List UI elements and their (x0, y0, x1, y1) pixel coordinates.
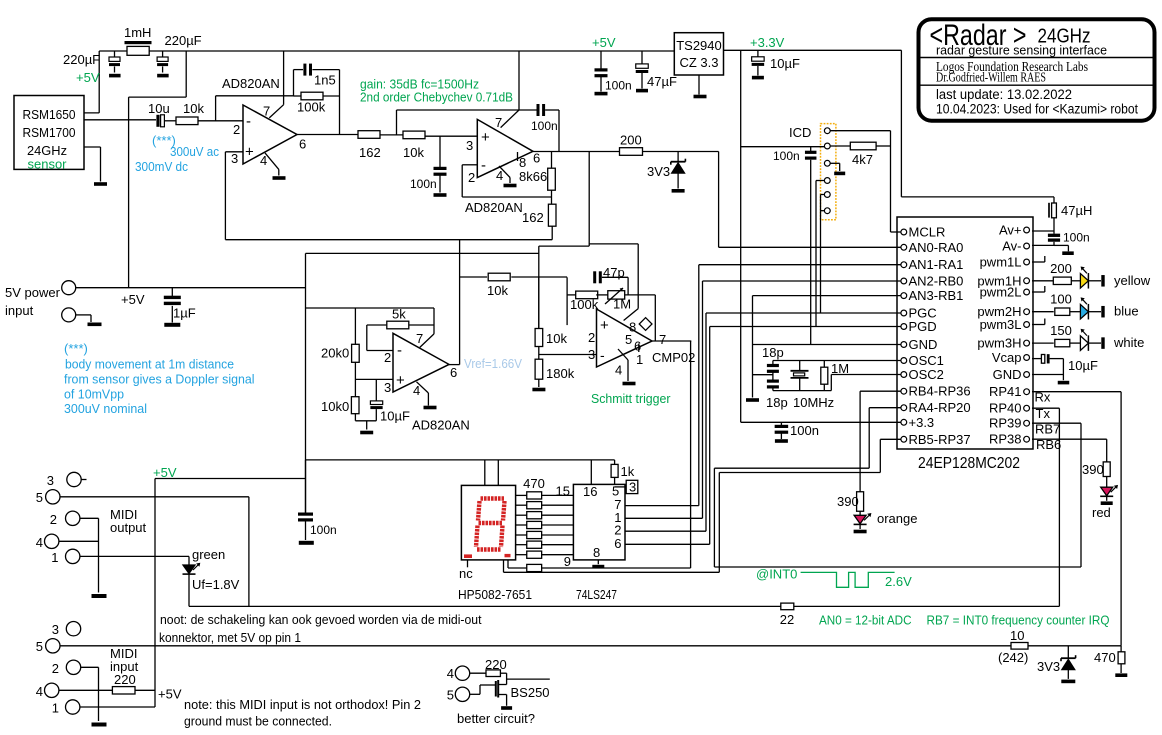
svg-text:BS250: BS250 (511, 685, 550, 700)
svg-text:Av+: Av+ (999, 223, 1022, 238)
svg-text:7: 7 (495, 115, 502, 130)
svg-text:1k: 1k (621, 464, 635, 479)
svg-text:RP41: RP41 (989, 384, 1022, 399)
svg-text:CMP02: CMP02 (652, 350, 695, 365)
svg-text:RP38: RP38 (989, 432, 1022, 447)
svg-text:200: 200 (620, 133, 642, 148)
svg-text:100: 100 (1050, 292, 1072, 307)
svg-text:3: 3 (384, 380, 391, 395)
svg-text:100n: 100n (531, 119, 558, 133)
svg-text:3: 3 (52, 622, 59, 637)
svg-text:yellow: yellow (1114, 273, 1151, 288)
svg-text:from sensor gives a Doppler si: from sensor gives a Doppler signal (64, 372, 255, 387)
svg-text:body movement at 1m distance: body movement at 1m distance (65, 357, 234, 372)
svg-text:(***): (***) (64, 341, 88, 356)
svg-text:RB4-RP36: RB4-RP36 (909, 384, 971, 399)
svg-text:3V3: 3V3 (1037, 659, 1060, 674)
svg-text:+: + (481, 129, 490, 146)
svg-text:+3.3: +3.3 (909, 415, 935, 430)
svg-text:100n: 100n (410, 177, 437, 191)
svg-text:OSC1: OSC1 (909, 353, 944, 368)
svg-text:6: 6 (299, 137, 306, 152)
svg-text:7: 7 (416, 331, 423, 346)
svg-text:RB7: RB7 (1035, 422, 1060, 437)
svg-text:+: + (245, 144, 254, 161)
svg-text:RB5-RP37: RB5-RP37 (909, 432, 971, 447)
svg-text:4: 4 (36, 684, 43, 699)
svg-text:1µF: 1µF (173, 306, 196, 321)
svg-text:pwm2L: pwm2L (980, 285, 1022, 300)
svg-text:3: 3 (231, 151, 238, 166)
svg-text:@INT0: @INT0 (756, 567, 797, 582)
svg-text:AD820AN: AD820AN (465, 200, 523, 215)
svg-text:output: output (110, 520, 147, 535)
svg-text:+: + (600, 317, 609, 334)
svg-text:10MHz: 10MHz (793, 395, 834, 410)
svg-text:nc: nc (459, 566, 473, 581)
svg-text:2: 2 (588, 330, 595, 345)
svg-text:6: 6 (450, 365, 457, 380)
svg-text:7: 7 (263, 104, 270, 119)
svg-text:162: 162 (359, 145, 381, 160)
svg-text:18p: 18p (762, 345, 784, 360)
svg-text:10µF: 10µF (380, 409, 410, 424)
svg-text:6: 6 (614, 536, 621, 551)
svg-text:+: + (396, 372, 405, 389)
svg-text:10.04.2023: Used for <Kazumi>: 10.04.2023: Used for <Kazumi> robot (936, 102, 1138, 117)
svg-text:47µH: 47µH (1061, 203, 1092, 218)
svg-text:Av-: Av- (1002, 239, 1021, 254)
svg-text:200: 200 (1050, 261, 1072, 276)
svg-text:+5V: +5V (592, 35, 616, 50)
svg-text:RB7 = INT0 frequency counter I: RB7 = INT0 frequency counter IRQ (927, 614, 1110, 628)
svg-text:100n: 100n (310, 523, 337, 537)
svg-text:100n: 100n (605, 79, 632, 93)
svg-text:+3.3V: +3.3V (750, 35, 785, 50)
svg-text:Vref=1.66V: Vref=1.66V (464, 356, 522, 371)
svg-text:pwm3L: pwm3L (980, 317, 1022, 332)
svg-text:RSM1650: RSM1650 (23, 107, 76, 122)
svg-text:2nd order Chebychev 0.71dB: 2nd order Chebychev 0.71dB (360, 90, 513, 105)
svg-text:Dr.Godfried-Willem RAES: Dr.Godfried-Willem RAES (936, 71, 1046, 86)
svg-text:4: 4 (615, 363, 622, 378)
svg-text:4: 4 (36, 535, 43, 550)
svg-text:2: 2 (233, 122, 240, 137)
svg-text:10k: 10k (487, 283, 508, 298)
svg-text:white: white (1113, 335, 1144, 350)
svg-text:RB6: RB6 (1036, 437, 1061, 452)
svg-text:CZ 3.3: CZ 3.3 (679, 55, 718, 70)
svg-text:TS2940: TS2940 (676, 38, 722, 53)
svg-text:100k: 100k (570, 297, 599, 312)
svg-text:10k: 10k (403, 145, 424, 160)
svg-text:470: 470 (1094, 650, 1116, 665)
svg-text:1: 1 (52, 701, 59, 716)
svg-text:Uf=1.8V: Uf=1.8V (192, 577, 240, 592)
svg-text:15: 15 (556, 484, 570, 499)
svg-text:8: 8 (519, 155, 526, 170)
svg-text:HP5082-7651: HP5082-7651 (458, 587, 532, 602)
svg-text:Schmitt trigger: Schmitt trigger (591, 391, 671, 406)
svg-text:220: 220 (485, 657, 507, 672)
svg-text:220µF: 220µF (63, 52, 100, 67)
svg-text:47p: 47p (603, 265, 625, 280)
svg-text:RP39: RP39 (989, 416, 1022, 431)
svg-text:radar gesture sensing interfac: radar gesture sensing interface (936, 43, 1107, 58)
svg-text:Rx: Rx (1035, 390, 1051, 405)
svg-text:1mH: 1mH (124, 25, 151, 40)
svg-text:+5V: +5V (153, 465, 177, 480)
svg-text:22: 22 (780, 612, 794, 627)
svg-text:3V3: 3V3 (647, 164, 670, 179)
svg-text:5: 5 (36, 490, 43, 505)
svg-text:Tx: Tx (1036, 406, 1051, 421)
svg-text:2: 2 (468, 170, 475, 185)
svg-text:1: 1 (51, 550, 58, 565)
svg-text:8k66: 8k66 (519, 169, 547, 184)
svg-text:1: 1 (636, 352, 643, 367)
svg-text:AN2-RB0: AN2-RB0 (909, 274, 964, 289)
svg-text:100k: 100k (297, 100, 326, 115)
svg-text:3: 3 (47, 473, 54, 488)
svg-text:OSC2: OSC2 (909, 367, 944, 382)
svg-text:10µF: 10µF (770, 56, 800, 71)
svg-text:better circuit?: better circuit? (457, 711, 535, 726)
svg-text:MCLR: MCLR (909, 225, 946, 240)
svg-text:RA4-RP20: RA4-RP20 (909, 400, 971, 415)
svg-text:AD820AN: AD820AN (222, 76, 280, 91)
svg-text:9: 9 (564, 554, 571, 569)
svg-text:-: - (481, 157, 486, 174)
svg-text:note: this MIDI input is not o: note: this MIDI input is not orthodox! P… (184, 697, 421, 712)
svg-text:100n: 100n (773, 149, 800, 163)
svg-text:300mV dc: 300mV dc (135, 159, 188, 174)
svg-text:180k: 180k (546, 366, 575, 381)
svg-text:47µF: 47µF (647, 74, 677, 89)
svg-text:390: 390 (837, 494, 859, 509)
svg-text:RP40: RP40 (989, 401, 1022, 416)
svg-text:+5V: +5V (158, 687, 182, 702)
svg-text:input: input (5, 303, 34, 318)
svg-text:ICD: ICD (789, 125, 811, 140)
svg-text:blue: blue (1114, 304, 1139, 319)
svg-text:orange: orange (877, 511, 917, 526)
svg-text:-: - (600, 347, 605, 363)
svg-text:-: - (397, 342, 402, 359)
svg-text:300uV ac: 300uV ac (170, 144, 219, 159)
svg-text:24EP128MC202: 24EP128MC202 (918, 455, 1020, 472)
svg-text:2: 2 (50, 512, 57, 527)
svg-text:1M: 1M (831, 361, 849, 376)
svg-text:Vcap: Vcap (992, 350, 1022, 365)
svg-text:last update: 13.02.2022: last update: 13.02.2022 (936, 87, 1072, 102)
svg-text:470: 470 (523, 476, 545, 491)
svg-text:18p: 18p (766, 395, 788, 410)
svg-text:6: 6 (533, 151, 540, 166)
svg-text:2: 2 (52, 661, 59, 676)
svg-text:150: 150 (1050, 323, 1072, 338)
svg-text:1M: 1M (613, 297, 631, 312)
svg-text:7: 7 (659, 332, 666, 347)
svg-text:+5V: +5V (121, 292, 145, 307)
svg-text:5k: 5k (392, 307, 406, 322)
svg-text:AN1-RA1: AN1-RA1 (909, 257, 964, 272)
svg-text:74LS247: 74LS247 (576, 587, 617, 602)
svg-text:PGD: PGD (909, 319, 937, 334)
svg-text:red: red (1092, 505, 1111, 520)
svg-text:2: 2 (384, 350, 391, 365)
svg-text:10k0: 10k0 (321, 399, 349, 414)
svg-text:AN3-RB1: AN3-RB1 (909, 288, 964, 303)
svg-text:4k7: 4k7 (852, 152, 873, 167)
svg-text:8: 8 (629, 320, 636, 335)
svg-text:pwm1L: pwm1L (980, 255, 1022, 270)
svg-text:8: 8 (593, 545, 600, 560)
svg-text:-: - (246, 113, 251, 130)
svg-text:4: 4 (447, 666, 454, 681)
svg-text:of 10mVpp: of 10mVpp (64, 387, 124, 402)
svg-text:100n: 100n (790, 423, 819, 438)
svg-text:AN0 = 12-bit ADC: AN0 = 12-bit ADC (819, 614, 912, 628)
svg-text:GND: GND (909, 337, 938, 352)
svg-text:2.6V: 2.6V (885, 574, 912, 589)
svg-text:4: 4 (496, 168, 503, 183)
svg-text:3: 3 (629, 480, 636, 495)
svg-text:5: 5 (447, 688, 454, 703)
svg-text:konnektor, met 5V op pin 1: konnektor, met 5V op pin 1 (159, 630, 301, 645)
svg-text:390: 390 (1082, 462, 1104, 477)
svg-text:10k: 10k (183, 101, 204, 116)
svg-text:GND: GND (993, 367, 1022, 382)
svg-text:green: green (192, 547, 225, 562)
svg-text:20k0: 20k0 (321, 346, 349, 361)
svg-text:10: 10 (1010, 628, 1024, 643)
svg-text:220: 220 (114, 672, 136, 687)
svg-text:RSM1700: RSM1700 (23, 125, 76, 140)
svg-text:300uV nominal: 300uV nominal (64, 401, 147, 416)
svg-text:ground must be connected.: ground must be connected. (184, 714, 332, 729)
svg-text:(242): (242) (998, 650, 1028, 665)
svg-text:+5V: +5V (76, 70, 100, 85)
svg-text:10µF: 10µF (1068, 358, 1098, 373)
svg-text:10k: 10k (546, 331, 567, 346)
svg-text:3: 3 (466, 138, 473, 153)
svg-text:16: 16 (583, 484, 597, 499)
svg-text:220µF: 220µF (165, 33, 202, 48)
svg-text:5V power: 5V power (5, 285, 61, 300)
svg-text:1n5: 1n5 (314, 73, 336, 88)
svg-text:AN0-RA0: AN0-RA0 (909, 240, 964, 255)
svg-text:sensor: sensor (28, 157, 68, 172)
svg-text:4: 4 (413, 383, 420, 398)
svg-text:162: 162 (522, 210, 544, 225)
svg-text:100n: 100n (1063, 231, 1090, 245)
svg-text:AD820AN: AD820AN (412, 418, 470, 433)
svg-text:pwm3H: pwm3H (977, 336, 1021, 351)
svg-text:10u: 10u (148, 101, 170, 116)
svg-text:5: 5 (36, 639, 43, 654)
svg-text:noot: de schakeling kan ook ge: noot: de schakeling kan ook gevoed worde… (160, 612, 482, 627)
